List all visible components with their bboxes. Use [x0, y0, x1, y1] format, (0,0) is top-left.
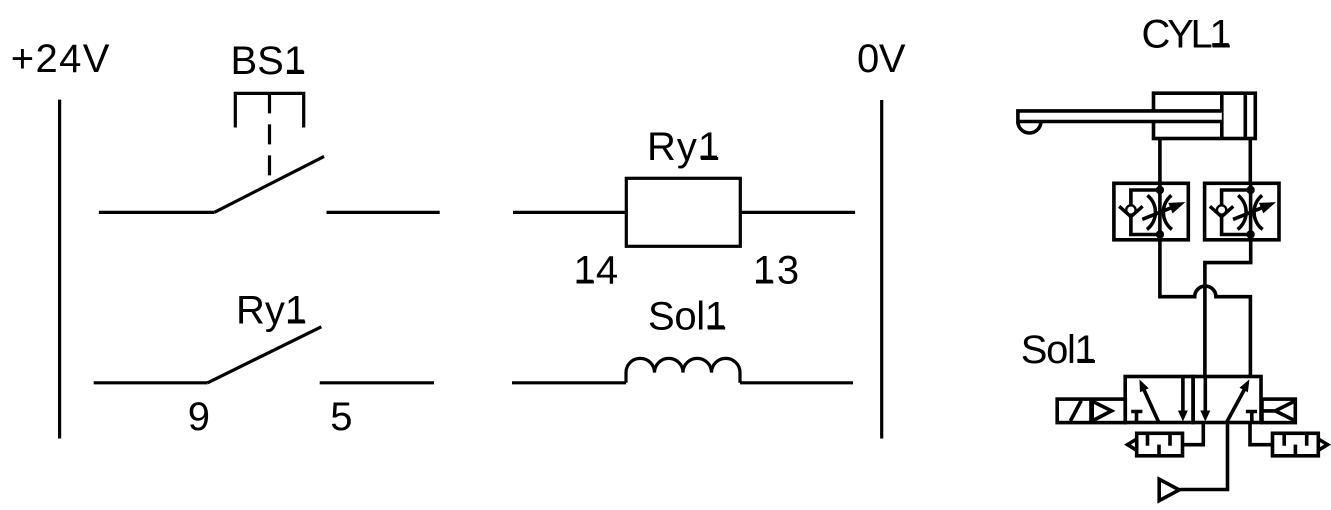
right silencer comb: [1284, 433, 1307, 456]
5/2-way valve body left box: [1125, 377, 1193, 423]
solenoid actuator box: [1057, 399, 1125, 423]
wire coil right: [740, 211, 855, 214]
svg-text:Sol1: Sol1: [648, 295, 727, 339]
flow control valve FC1: [1114, 183, 1188, 240]
switch BS1 (NO contact): [214, 156, 324, 212]
left box flow path 2-3 (arrow down): [1181, 377, 1185, 414]
right box flow path 4-5 (arrow down): [1204, 377, 1208, 414]
relay coil Ry1: [626, 178, 740, 246]
right silencer outlet triangle: [1318, 439, 1327, 450]
solenoid coil stroke: [1070, 401, 1081, 421]
right box blocked port T: [1246, 412, 1257, 423]
cylinder piston rod: [1018, 111, 1222, 122]
wire solenoid left: [512, 381, 626, 384]
tube port 1 to air supply: [1180, 423, 1228, 490]
contact Ry1 (NO): [208, 327, 322, 383]
tube cylinder left port: [1158, 139, 1162, 184]
air supply source triangle: [1159, 479, 1179, 500]
wire BS1 left: [99, 211, 214, 214]
svg-text:0V: 0V: [857, 37, 906, 81]
svg-text:9: 9: [188, 395, 210, 439]
svg-text:Sol1: Sol1: [1021, 328, 1097, 372]
5/2-way valve body right box: [1193, 377, 1261, 423]
svg-text:5: 5: [330, 395, 352, 439]
svg-text:+24V: +24V: [11, 37, 110, 81]
left box flow path 1-4 (arrow up): [1142, 385, 1159, 423]
svg-text:Ry1: Ry1: [647, 125, 720, 169]
svg-text:BS1: BS1: [231, 39, 307, 83]
cylinder CYL1 body: [1154, 93, 1256, 138]
+24V rail: [58, 100, 61, 439]
svg-text:13: 13: [753, 249, 799, 293]
flow control valve FC2: [1205, 183, 1279, 240]
svg-text:14: 14: [574, 249, 619, 293]
wire BS1 right: [327, 211, 440, 214]
tube FC2 to valve port 4: [1205, 240, 1251, 377]
0V rail: [880, 100, 883, 439]
left silencer comb: [1148, 433, 1171, 456]
svg-text:CYL1: CYL1: [1142, 12, 1232, 56]
cylinder piston second wall: [1244, 93, 1248, 138]
cylinder piston: [1220, 93, 1224, 138]
rod end roller: [1018, 122, 1041, 134]
solenoid divider: [1089, 399, 1093, 423]
air pilot return box: [1262, 399, 1295, 423]
left box blocked port T: [1131, 412, 1142, 423]
solenoid pilot triangle: [1092, 401, 1111, 421]
tube cylinder right port: [1249, 139, 1253, 184]
right silencer body: [1273, 433, 1319, 456]
tube port 5 to left silencer: [1183, 423, 1204, 445]
push-button actuator BS1: [235, 93, 303, 127]
svg-text:Ry1: Ry1: [236, 288, 307, 332]
wire coil left: [513, 211, 626, 214]
wire contact right: [320, 381, 434, 384]
solenoid Sol1 (inductor): [626, 358, 740, 382]
actuator link (dashed): [268, 93, 271, 183]
tube port 3 to right silencer: [1250, 423, 1273, 445]
pilot return triangle: [1262, 401, 1295, 421]
wire contact left: [94, 381, 208, 384]
right box flow path 1-2 (arrow up): [1227, 386, 1247, 423]
left silencer outlet triangle: [1128, 439, 1137, 450]
left silencer body: [1137, 433, 1183, 456]
tube FC1 to valve port 2 (with jump): [1160, 240, 1251, 377]
wire solenoid right: [740, 381, 853, 384]
